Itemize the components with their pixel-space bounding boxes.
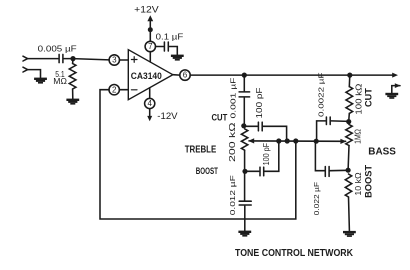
output arrow right xyxy=(392,73,398,78)
wire 100pF upper to rail xyxy=(263,126,286,141)
svg-text:-12V: -12V xyxy=(157,111,177,121)
wire op-amp apex to pin6 xyxy=(173,74,180,76)
node rail feedback xyxy=(293,138,298,143)
svg-text:MΩ: MΩ xyxy=(53,77,67,86)
svg-text:0.1 µF: 0.1 µF xyxy=(156,31,184,41)
resistor 100k xyxy=(346,87,353,114)
ground treble xyxy=(238,231,251,237)
svg-text:4: 4 xyxy=(147,99,152,108)
svg-text:2: 2 xyxy=(112,85,117,94)
svg-text:100 pF: 100 pF xyxy=(254,88,264,119)
svg-text:200 kΩ: 200 kΩ xyxy=(228,122,237,162)
svg-text:100 pF: 100 pF xyxy=(262,143,271,166)
wire pin2 to op-amp xyxy=(119,89,128,91)
capacitor 0.001uF xyxy=(239,92,250,97)
wire 0.0022 to node D xyxy=(331,120,349,123)
plus sign xyxy=(131,57,137,63)
main output line xyxy=(190,74,393,76)
node D junction xyxy=(346,119,351,124)
op-amp U1 CA3140 xyxy=(128,50,173,100)
capacitor 0.005uF xyxy=(59,54,63,62)
+12V arrow xyxy=(147,15,153,21)
wire input top to C1 xyxy=(28,58,58,60)
node E junction xyxy=(346,168,351,173)
ground bass xyxy=(343,231,356,237)
-12V arrow xyxy=(147,116,152,121)
node C junction xyxy=(242,169,247,174)
svg-text:0.0022 µF: 0.0022 µF xyxy=(316,72,325,117)
wire cap to node B xyxy=(243,98,245,126)
node A junction xyxy=(70,56,75,61)
node rail 100pF upper xyxy=(285,138,290,143)
wire 200k to node C xyxy=(244,150,246,171)
wire rail up to 0.0022 xyxy=(317,121,326,141)
wire bass top to 100k xyxy=(348,75,351,87)
potentiometer 200k treble xyxy=(241,129,247,150)
potentiometer 1M bass xyxy=(346,125,352,146)
wire node B to 100pF upper xyxy=(244,125,258,127)
svg-text:BOOST: BOOST xyxy=(196,166,218,176)
ground 5.1M xyxy=(66,99,79,105)
wire rail down to 0.022 xyxy=(315,141,324,171)
wire pin3 to op-amp xyxy=(120,59,129,61)
wire pin7 to op-amp edge xyxy=(149,52,151,62)
treble wiper arrow xyxy=(248,138,254,143)
pin 2 xyxy=(109,85,119,95)
wire cap to ground xyxy=(169,47,177,55)
svg-text:1MΩ: 1MΩ xyxy=(353,129,363,144)
svg-text:0.005 µF: 0.005 µF xyxy=(38,43,77,53)
wire node A to pin 3 xyxy=(73,59,109,60)
wire input bottom to ground xyxy=(28,70,41,78)
svg-text:CUT: CUT xyxy=(363,88,374,107)
svg-text:CA3140: CA3140 xyxy=(131,71,162,81)
resistor 10k xyxy=(345,174,351,197)
wire 10k to ground xyxy=(348,197,351,231)
minus sign xyxy=(131,89,137,91)
pin 6 xyxy=(180,70,190,80)
wire 100k to node D xyxy=(348,113,351,121)
capacitor 0.022uF xyxy=(325,167,329,177)
capacitor 0.012uF xyxy=(239,201,251,205)
input terminal bottom xyxy=(23,67,28,72)
bass wiper arrow xyxy=(340,139,346,144)
capacitor 0.1uF xyxy=(164,42,168,51)
svg-text:0.001 µF: 0.001 µF xyxy=(229,77,238,118)
wire C1 to node A xyxy=(64,58,73,60)
junction on +12V lead xyxy=(148,27,153,32)
capacitor 100pF lower xyxy=(260,167,264,176)
pin 4 xyxy=(145,98,155,108)
feedback wire pin2 left, down, across, up to wiper rail xyxy=(100,90,296,219)
svg-text:TONE CONTROL NETWORK: TONE CONTROL NETWORK xyxy=(235,248,354,259)
svg-text:10 kΩ: 10 kΩ xyxy=(353,172,363,195)
wire pin4 to -12V arrow xyxy=(149,109,151,117)
wiper rail xyxy=(249,140,346,142)
ground input xyxy=(34,78,47,84)
wire 0.012 to ground xyxy=(244,206,246,231)
wire 1M to node E xyxy=(347,146,350,171)
capacitor 0.0022uF xyxy=(326,117,330,125)
wire treble top down xyxy=(243,75,245,91)
pin 7 xyxy=(145,41,155,51)
wire op-amp edge to pin4 xyxy=(149,88,151,99)
ground bypass xyxy=(171,55,184,61)
output return ground symbol xyxy=(385,83,400,99)
svg-text:TREBLE: TREBLE xyxy=(185,145,217,156)
svg-text:BOOST: BOOST xyxy=(364,165,375,198)
wire resistor to ground xyxy=(72,89,74,99)
node bass top xyxy=(347,73,352,78)
node rail bass caps xyxy=(314,139,319,144)
svg-text:CUT: CUT xyxy=(212,113,228,123)
node rail 100pF lower xyxy=(276,138,281,143)
input terminal top xyxy=(23,56,28,61)
wire pin7 up to +12V xyxy=(149,21,151,42)
capacitor 100pF upper xyxy=(258,122,262,131)
svg-text:+12V: +12V xyxy=(134,4,159,15)
wire 100pF lower up to rail xyxy=(265,141,279,171)
svg-text:7: 7 xyxy=(148,42,153,51)
svg-text:3: 3 xyxy=(112,56,117,65)
wire node C to 100pF lower xyxy=(245,170,259,172)
node B junction xyxy=(241,123,246,128)
svg-text:0.012 µF: 0.012 µF xyxy=(228,175,237,215)
resistor 5.1M xyxy=(69,64,76,90)
wire node A down to resistor xyxy=(72,59,74,64)
wire node C down to 0.012 xyxy=(244,171,246,200)
wire 0.022 to node E xyxy=(330,169,348,171)
svg-text:100 kΩ: 100 kΩ xyxy=(353,84,363,115)
wire pin7 to bypass cap xyxy=(156,46,164,48)
pin 3 xyxy=(109,55,119,65)
svg-text:6: 6 xyxy=(183,71,188,80)
node treble top xyxy=(242,73,247,78)
svg-text:BASS: BASS xyxy=(368,146,396,157)
svg-text:0.022 µF: 0.022 µF xyxy=(312,182,321,216)
